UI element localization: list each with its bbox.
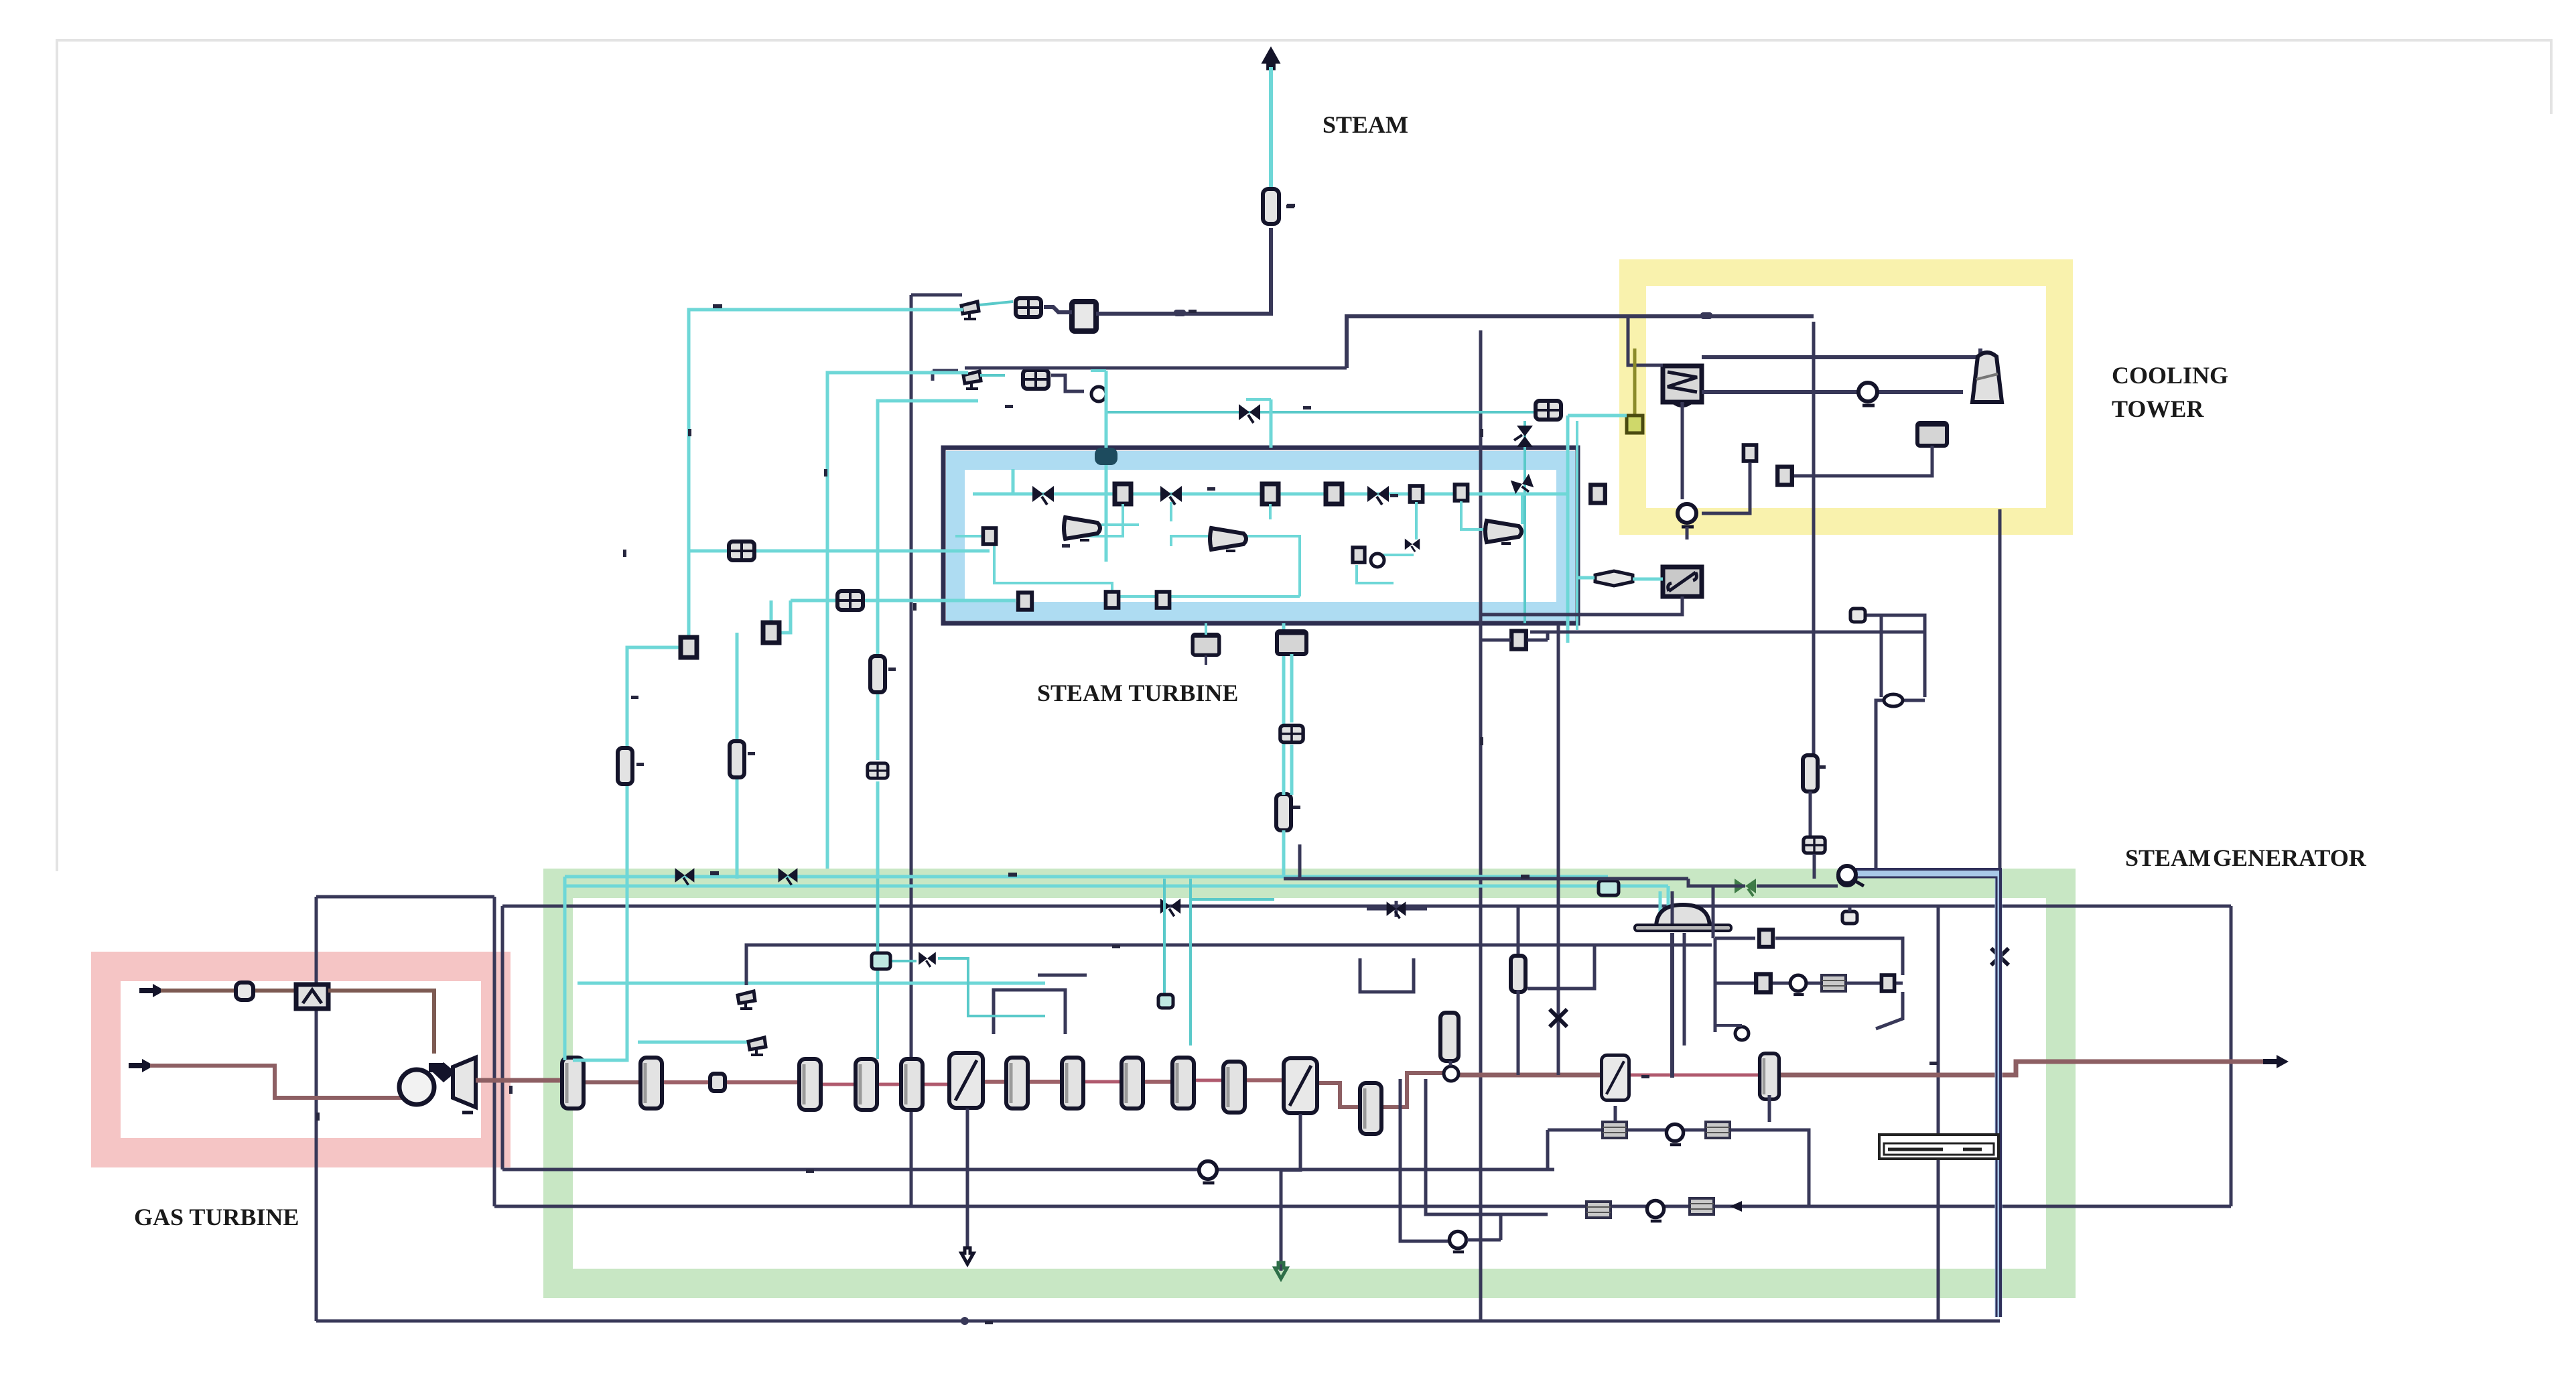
steam turbine blue band: [955, 460, 1566, 611]
svg-text:COOLING: COOLING: [2112, 362, 2228, 389]
loop right: [1859, 615, 1925, 697]
valve on big right vertical: [1991, 948, 2009, 965]
staircase left of drum: [1300, 844, 1672, 1066]
cyan riser x1310: [878, 401, 978, 658]
link hx to square: [1044, 307, 1072, 312]
valve x2326: [1557, 625, 1560, 1075]
small loop top right: [1880, 615, 1883, 697]
wire vertical x738: [493, 897, 496, 1206]
valve at 2057,737: [1367, 486, 1389, 505]
row of valves and blocks: [1032, 486, 1054, 505]
pump on 1745 line: [1199, 1161, 1217, 1183]
small circle after: [1091, 387, 1106, 401]
block at 2612,676: [1743, 445, 1756, 461]
vertical x2707 continues: [1812, 322, 1816, 756]
wire right vertical x2985: [1998, 509, 2002, 871]
navy line square to steam riser: [1096, 312, 1271, 316]
heat exchanger at 1269,896: [837, 591, 863, 610]
drum heat exchanger at 2411,1608: [1602, 1055, 1629, 1100]
cyan down from hx to box: [1523, 421, 1526, 623]
wire loop A bottom: [316, 1320, 2000, 1323]
navy in-band line: [1284, 877, 1688, 881]
row2 left line: [933, 369, 958, 373]
svg-text:STEAM TURBINE: STEAM TURBINE: [1037, 680, 1238, 706]
turbine horns: [1064, 517, 1100, 540]
cyan stub entering yellow box: [1568, 414, 1627, 418]
riser x1310 continue: [876, 690, 880, 760]
small vessel at 2702,1154: [1803, 755, 1818, 791]
drain arrow at 1444,1874: [961, 1248, 973, 1264]
vessel at 855,1616: [562, 1058, 584, 1108]
jog left to riser x936: [627, 647, 681, 750]
lp heater line y1686: [1548, 1129, 1775, 1132]
turbine stage at 2245,793: [1485, 521, 1521, 544]
block at 1660,895: [1105, 592, 1118, 608]
top edge connector dot: [1095, 448, 1117, 465]
heater line y1800 glyphs: [1586, 1202, 1611, 1218]
heater block at 2410,1686: [1603, 1122, 1627, 1138]
vessel at 1690,1616: [1122, 1058, 1143, 1108]
cyan right drop to dome: [1667, 886, 1670, 917]
heater block at 2737,1467: [1822, 975, 1846, 991]
heat exchanger at 1310,1150: [868, 763, 888, 778]
heat exchanger at 2311,612: [1536, 401, 1561, 420]
mixer square: [1072, 302, 1096, 331]
condensate down from condenser: [1681, 429, 1684, 444]
svg-text:STEAM: STEAM: [1323, 111, 1408, 138]
cyan horizontals lower left: [578, 982, 1045, 985]
svg-text:STEAM GENERATOR: STEAM GENERATOR: [2125, 844, 2367, 871]
navy upper route to cooling: step: [1347, 316, 1814, 368]
left small components: [681, 637, 697, 657]
olive lines: [1633, 348, 1637, 434]
drain line and arrow below big drum: [966, 1108, 969, 1248]
fuel line: [161, 989, 297, 993]
right loop verticals: [1400, 1079, 1450, 1241]
vertical pair at 2266: [1517, 906, 1520, 958]
teal drops below band: [878, 879, 1274, 1059]
block at 2181,735: [1454, 485, 1467, 501]
hx2 below yellow box: [1663, 567, 1702, 596]
valve at 2272,722: [1511, 474, 1535, 497]
block at 2028,828: [1353, 548, 1365, 563]
second row: flag comp: [963, 371, 981, 389]
vessel at 1361,1618: [901, 1059, 923, 1110]
pump on green band: [1838, 868, 1856, 885]
wire central vertical x2210: [1479, 330, 1483, 1321]
riser x936 below vessel into HRSG: [573, 783, 627, 1060]
gas turbine pink box: [106, 966, 496, 1153]
vessel at 1766,1616: [1172, 1058, 1194, 1108]
drum heat exchanger at 1442,1612: [949, 1053, 983, 1108]
wire mid horizontal 1745: [502, 1168, 1554, 1171]
makeup cylinder: [1917, 423, 1947, 446]
green band top pump: [1838, 866, 1856, 883]
pump discharge to hx2 below: [1686, 527, 1689, 540]
cyan vertical x1897 from 596 to box: [1270, 399, 1273, 448]
block at 1736,895: [1156, 592, 1169, 608]
air line: [150, 1066, 402, 1098]
main cyan header inside box: [973, 493, 1566, 496]
steam generator green box: [558, 883, 2061, 1283]
small vessel at 1310,1006: [870, 656, 885, 692]
block at 1991,737: [1326, 484, 1342, 504]
top hx: [1016, 298, 1041, 317]
blowdown block: [1777, 467, 1792, 485]
pump at 2684,1467: [1790, 975, 1806, 995]
faint page frame: [57, 40, 2551, 871]
small vessel at 2266,1453: [1511, 956, 1526, 992]
small vessel at 1916,1212: [1276, 794, 1291, 830]
turbine exhaust cone: [453, 1058, 476, 1107]
cyan vertical through steam turbine to vessel: [1282, 623, 1286, 795]
feedwater header y1410: [746, 945, 1712, 1034]
compressor circle: [399, 1070, 434, 1104]
fuel inlet arrow: [139, 984, 165, 997]
valve at 1384,1430: [919, 952, 936, 966]
junction dot on bottom line: [961, 1317, 969, 1325]
line down from vessel: [1096, 228, 1271, 314]
valve at 1022,1306: [675, 868, 695, 885]
wire vertical x2893: [1937, 906, 1940, 1321]
navy line right from box y943: [1530, 631, 1925, 634]
line left to vertical: [911, 294, 962, 297]
valve at 1748,737: [1160, 486, 1182, 505]
steam exit arrow: [1264, 49, 1279, 69]
wire rect2 right: [2230, 906, 2233, 1206]
gas turbine shaft block: [433, 1062, 456, 1082]
navy from hx stepping right: [1051, 375, 1084, 391]
valve at 2108,812: [1405, 539, 1420, 552]
steam relief vessel: [1263, 189, 1279, 224]
air inlet arrow: [129, 1059, 154, 1072]
steam turbine navy border: [943, 448, 1578, 623]
wire vertical x1360: [910, 295, 913, 1206]
sq right of central vertical: [1511, 631, 1526, 649]
svg-text:TOWER: TOWER: [2112, 395, 2204, 422]
green blowdown valve: [1735, 879, 1756, 893]
heat exchanger at 1546,566: [1023, 370, 1048, 389]
exhaust to HRSG: [476, 1078, 561, 1083]
valve at 2276,651: [1514, 426, 1533, 447]
turbine stage at 1834,804: [1210, 528, 1246, 551]
heat exchanger at 2708,1261: [1804, 837, 1825, 853]
cyan main riser x1028: [689, 310, 963, 638]
cyan line y615 with valve: [1106, 411, 1537, 414]
cyan riser x1235: [827, 373, 968, 869]
heat exchanger at 1107,822: [729, 542, 754, 560]
block at 2636,1400: [1759, 930, 1773, 947]
block at 2632,1467: [1756, 974, 1771, 993]
sq2 drop: [770, 600, 773, 623]
small comps: [983, 528, 996, 544]
bottom small pump: [1449, 1231, 1466, 1252]
green band cyan main: [565, 875, 1608, 879]
teal link: [979, 302, 1013, 305]
condenser: [1663, 366, 1702, 406]
cooling tower yellow box: [1633, 273, 2059, 521]
results summary table: [1879, 1135, 1998, 1159]
vessel at 1518,1616: [1006, 1058, 1028, 1108]
heat exchanger at 1928,1095: [1280, 725, 1303, 742]
valve on rect2 top: [1160, 899, 1180, 917]
riser x1100: [736, 633, 739, 744]
thick light blue pipe to right edge: [1856, 873, 1998, 1317]
cooling tower: [1972, 353, 2002, 402]
upper feed heater line y1467: [1715, 982, 1903, 985]
flag comp: [961, 302, 979, 319]
steam riser cyan: [1269, 67, 1273, 189]
block at 2385,737: [1590, 485, 1605, 503]
steam drum dome: [1635, 905, 1731, 931]
valve at 1176,1306: [778, 868, 798, 885]
drain 2 from drum C: [1281, 1114, 1300, 1271]
heater block at 2540,1800: [1690, 1198, 1714, 1214]
block at 1530,897: [1018, 592, 1032, 610]
pump at 2518,766: [1678, 504, 1696, 527]
cyan hx line y822: [689, 550, 990, 553]
wire rect2 top: [502, 905, 2231, 908]
stack arrow out: [2263, 1055, 2289, 1068]
tall vessel right of row: [1440, 1013, 1459, 1061]
vessel at 2046,1654: [1360, 1083, 1381, 1134]
small vessel at 933,1143: [618, 748, 632, 784]
condenser block under turbine: [1277, 631, 1306, 654]
svg-text:GAS TURBINE: GAS TURBINE: [134, 1204, 299, 1230]
descent lines inside: [955, 494, 1522, 596]
block at 2818,1467: [1881, 975, 1894, 991]
wire long bottom 1800: [494, 1205, 2231, 1208]
vessel at 1842,1622: [1223, 1062, 1245, 1113]
vessel at 972,1616: [640, 1058, 662, 1108]
combustor outlet line: [328, 991, 434, 1054]
cyan hx line y896: [791, 599, 1016, 603]
cyan vertical x1651 down to blue box: [1105, 371, 1108, 562]
vessel at 1293,1618: [856, 1059, 877, 1110]
pump at 2500,1690: [1666, 1124, 1683, 1145]
block at 1896,737: [1262, 484, 1278, 504]
separator at 1115,1491: [738, 991, 755, 1009]
valve at 1865,615: [1239, 404, 1260, 423]
navy y549 long: [965, 367, 1347, 370]
wire loop A top: [316, 895, 494, 899]
block at 1676,737: [1115, 484, 1131, 504]
small vessel at 1100,1133: [730, 741, 744, 777]
vessel at 1601,1616: [1062, 1058, 1083, 1108]
fuel knockout pot: [236, 983, 253, 1000]
block at 2114,737: [1410, 486, 1422, 502]
hot line to tower top: [1702, 348, 1980, 357]
separator at 1131,1560: [748, 1037, 766, 1055]
wire rect2 left: [501, 906, 504, 1169]
block at 1151,944: [763, 623, 779, 643]
second big drum: [1284, 1058, 1317, 1113]
condensate drop below box: [1193, 635, 1219, 655]
valve at 2084,1356: [1387, 901, 1406, 918]
wire loop A left vertical: [315, 897, 318, 1321]
return line through pump: [1702, 390, 1963, 394]
vessel at 1209,1618: [799, 1059, 821, 1110]
heater block at 2564,1686: [1706, 1122, 1730, 1138]
left feed vertical: [1012, 469, 1015, 494]
pump at 2471,1804: [1647, 1200, 1664, 1221]
vessel at 2641,1606: [1760, 1054, 1779, 1099]
pump at 2788,585: [1858, 383, 1877, 405]
wing comp left of hx2: [1595, 571, 1633, 586]
hx2 outlet down: [1481, 596, 1682, 615]
combustor B1: [296, 985, 328, 1009]
